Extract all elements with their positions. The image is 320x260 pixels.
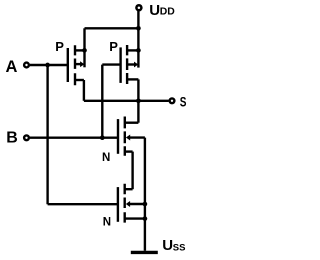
wire output line from P1 drain to S terminal (84, 100, 169, 102)
junction dot B branch (100, 135, 105, 140)
wire UDD terminal down to rail (137, 11, 139, 29)
junction dot N2 source tie (143, 216, 148, 221)
wire N1 bulk down right side to USS (144, 138, 146, 251)
junction dot rail to backbone (136, 26, 141, 31)
junction dot A branch (45, 63, 50, 68)
wire N1 source down to N2 drain (131, 152, 133, 190)
wire UDD rail horizontal (85, 27, 139, 29)
transistor N1 (NMOS, gate B) gate bar (117, 119, 119, 154)
transistor P1 bulk arrow (PMOS, points right) (80, 61, 84, 67)
junction dot P1 source bulk tie (82, 48, 87, 53)
wire P1 drain down to output line (83, 80, 85, 101)
junction dot N2 bulk tie (143, 202, 148, 207)
transistor P2 channel segments (126, 45, 128, 84)
transistor P1 source stub top (75, 49, 85, 51)
wire UDD backbone down to P2 source and bulk (137, 28, 139, 67)
transistor P1 channel segments (74, 45, 76, 85)
transistor N2 channel segments (123, 184, 125, 223)
junction dot P2 source bulk tie (136, 48, 141, 53)
svg-text:SS: SS (173, 242, 186, 253)
node S: output terminal circle (170, 98, 175, 103)
svg-text:U: U (149, 2, 160, 19)
svg-text:P: P (109, 39, 118, 54)
transistor P1 drain stub bottom (75, 79, 84, 81)
wire A branch to N2 gate (48, 203, 118, 205)
wire input A to P1 gate (30, 64, 68, 66)
wire B branch to P2 gate (102, 63, 120, 65)
svg-text:DD: DD (160, 7, 176, 18)
svg-text:N: N (102, 152, 110, 164)
wire UDD rail left drop to P1 source and bulk (83, 28, 85, 67)
svg-text:U: U (162, 237, 173, 254)
node UDD: supply terminal circle (136, 5, 141, 10)
transistor N2 (NMOS, gate A) gate bar (117, 187, 119, 222)
ground bar USS (131, 251, 158, 254)
transistor P2 bulk arrow (PMOS, points right) (134, 62, 138, 68)
wire A branch down left side (46, 65, 48, 204)
svg-text:B: B (6, 129, 18, 146)
transistor N1 drain stub top (125, 121, 139, 123)
transistor N2 bulk arrow (NMOS, points left) (126, 201, 130, 207)
svg-text:S: S (180, 93, 187, 109)
transistor N2 drain stub top (125, 188, 133, 190)
transistor P2 drain stub bottom (127, 78, 138, 80)
transistor P1 (PMOS, gate A) gate bar (67, 48, 69, 82)
transistor N2 bulk stub (129, 203, 145, 205)
wire input B to N1 gate (30, 136, 118, 138)
svg-text:A: A (6, 58, 18, 76)
node B: input terminal circle (24, 135, 29, 140)
svg-text:P: P (55, 39, 64, 54)
transistor P2 source stub top (127, 49, 138, 51)
wire B branch up to P2 gate level (101, 65, 103, 138)
svg-text:N: N (103, 216, 111, 228)
transistor N1 bulk arrow (NMOS, points left) (126, 135, 130, 141)
transistor N1 source stub bottom (125, 150, 133, 152)
transistor P2 bulk stub (127, 63, 134, 65)
node A: input terminal circle (24, 63, 29, 68)
transistor N2 source stub bottom (125, 217, 145, 219)
transistor N1 channel segments (124, 117, 126, 156)
transistor P1 bulk stub (75, 63, 81, 65)
junction dot output node (136, 98, 141, 103)
transistor P2 (PMOS, gate B) gate bar (119, 47, 121, 83)
transistor N1 bulk stub (129, 136, 145, 138)
wire P2 drain down through output node to N1 drain (137, 79, 139, 122)
